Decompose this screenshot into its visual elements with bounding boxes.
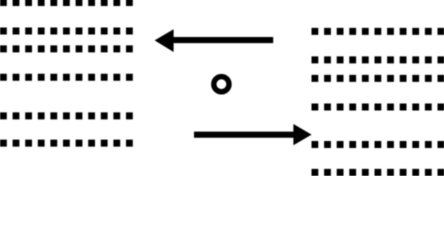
left dashed block row 2 (0, 28, 133, 35)
right arrow shaft (194, 132, 295, 138)
left dashed block row 6 (0, 140, 133, 147)
right arrow head (293, 124, 311, 145)
right dashed block row 4 (312, 104, 444, 111)
left arrow shaft (172, 37, 273, 43)
right dashed block row 5 (312, 141, 444, 148)
left dashed block row 1 (0, 0, 133, 6)
right dashed block row 6 (312, 169, 444, 176)
right dashed block row 3 (312, 75, 444, 82)
ring (circle marker) (214, 77, 229, 92)
left dashed block row 3 (0, 45, 133, 52)
left dashed block row 4 (0, 74, 133, 81)
right dashed block row 2 (312, 56, 444, 63)
right dashed block row 1 (312, 28, 444, 35)
left arrow head (155, 29, 174, 52)
left dashed block row 5 (0, 112, 133, 119)
